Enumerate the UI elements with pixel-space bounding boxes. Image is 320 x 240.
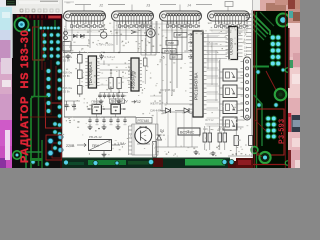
svg-text:ФУТ12: ФУТ12 [205,118,214,122]
svg-text:4,7uF+2: 4,7uF+2 [104,55,115,59]
svg-text:+5: +5 [219,20,223,24]
svg-text:max: max [168,41,174,45]
svg-text:СИНИЙ: СИНИЙ [150,109,161,113]
svg-text:ОСТОВ мб: ОСТОВ мб [160,88,175,92]
svg-text:ULN2803: ULN2803 [229,37,234,55]
svg-text:HS 183-30: HS 183-30 [19,30,31,89]
svg-text:РВ-25-12: РВ-25-12 [89,135,102,139]
svg-text:ПВХ: ПВХ [92,144,100,148]
svg-text:ДЕТ: ДЕТ [172,55,178,59]
svg-text:TDA7056AS: TDA7056AS [88,62,93,86]
svg-text:+12: +12 [135,100,141,104]
svg-text:пит: пит [66,1,71,5]
svg-text:PIC16F876A: PIC16F876A [194,72,200,100]
svg-text:3,5 Вт: 3,5 Вт [63,74,71,78]
svg-text:ПВ-55: ПВ-55 [92,99,101,103]
svg-text:3,5 Вт: 3,5 Вт [63,58,71,62]
svg-text:220В: 220В [66,144,75,148]
svg-text:руч/вкл: руч/вкл [164,49,175,53]
svg-text:4,7uF+2 100n: 4,7uF+2 100n [96,43,114,47]
svg-text:3,5 Вт: 3,5 Вт [63,89,71,93]
svg-text:ДБ777-2,2V: ДБ777-2,2V [111,100,129,104]
svg-text:Р3-593: Р3-593 [279,118,286,144]
svg-text:РП7440: РП7440 [138,119,150,123]
